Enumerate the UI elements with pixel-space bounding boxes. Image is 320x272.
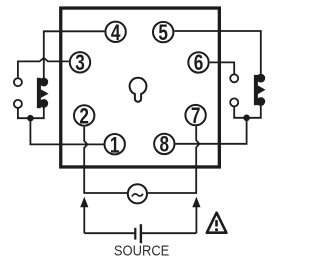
- warning triangle: [207, 213, 227, 233]
- terminal (left upper, open circle): [14, 78, 22, 86]
- supply arrow left: [83, 207, 85, 234]
- pin 6: [188, 51, 208, 76]
- pin 2: [74, 104, 94, 129]
- wire pin6 to right terminal: [210, 62, 235, 73]
- AC source symbol circle: [128, 184, 147, 203]
- junction node (left): [27, 115, 34, 122]
- svg-text:2: 2: [79, 104, 89, 129]
- AC sine squiggle: [132, 194, 143, 197]
- keyhole center of socket: [130, 78, 147, 102]
- wire pin3 to left terminal (hop over pin4 wire): [18, 58, 69, 78]
- contact point dot (right top): [256, 74, 265, 83]
- contact point dot (right bottom): [256, 97, 265, 106]
- junction node (right): [243, 115, 250, 122]
- terminal (left lower, open circle): [14, 100, 22, 108]
- pin 1: [105, 133, 125, 158]
- svg-text:6: 6: [194, 51, 204, 76]
- svg-text:4: 4: [111, 21, 121, 46]
- wire left junction to pin1: [30, 118, 103, 144]
- svg-text:8: 8: [160, 133, 170, 158]
- pin 8: [154, 133, 174, 158]
- pin 4: [105, 21, 125, 46]
- contact point dot (left top): [39, 78, 48, 87]
- battery short plate: [134, 228, 136, 240]
- bottom wire battery to right arrow: [141, 232, 197, 234]
- wire pin4 to left contact top: [44, 31, 105, 82]
- bottom wire left to battery: [84, 232, 135, 234]
- contact wiper triangle (left): [41, 89, 49, 98]
- pin 5: [153, 21, 173, 46]
- wire pin7 down to source line (jog right over pin8 wire): [148, 126, 200, 193]
- contact wiper triangle (right): [258, 85, 266, 94]
- wire left lower terminal to contact bottom: [18, 103, 44, 118]
- pin 7: [185, 104, 205, 129]
- svg-text:3: 3: [75, 51, 85, 76]
- terminal (right upper, open circle): [230, 74, 238, 82]
- wire right junction to pin8: [176, 118, 247, 144]
- svg-text:7: 7: [191, 104, 201, 129]
- exclamation mark: [215, 220, 218, 226]
- contact bar (right SPDT contact): [254, 75, 258, 105]
- contact point dot (left bottom): [39, 99, 48, 108]
- wire pin5 to right contact top: [175, 31, 261, 78]
- svg-text:SOURCE: SOURCE: [114, 243, 170, 260]
- wire pin2 down to source line (jog right over pin1 wire): [84, 127, 127, 193]
- supply arrow right: [195, 207, 197, 234]
- socket outline box: [61, 8, 220, 167]
- pin 3: [70, 51, 90, 76]
- terminal (right lower, open circle): [230, 98, 238, 106]
- battery long plate: [140, 224, 142, 243]
- wire right lower terminal to contact bottom: [234, 102, 261, 118]
- svg-text:5: 5: [158, 21, 168, 46]
- svg-text:1: 1: [110, 133, 120, 158]
- contact bar (left SPDT contact): [37, 78, 41, 108]
